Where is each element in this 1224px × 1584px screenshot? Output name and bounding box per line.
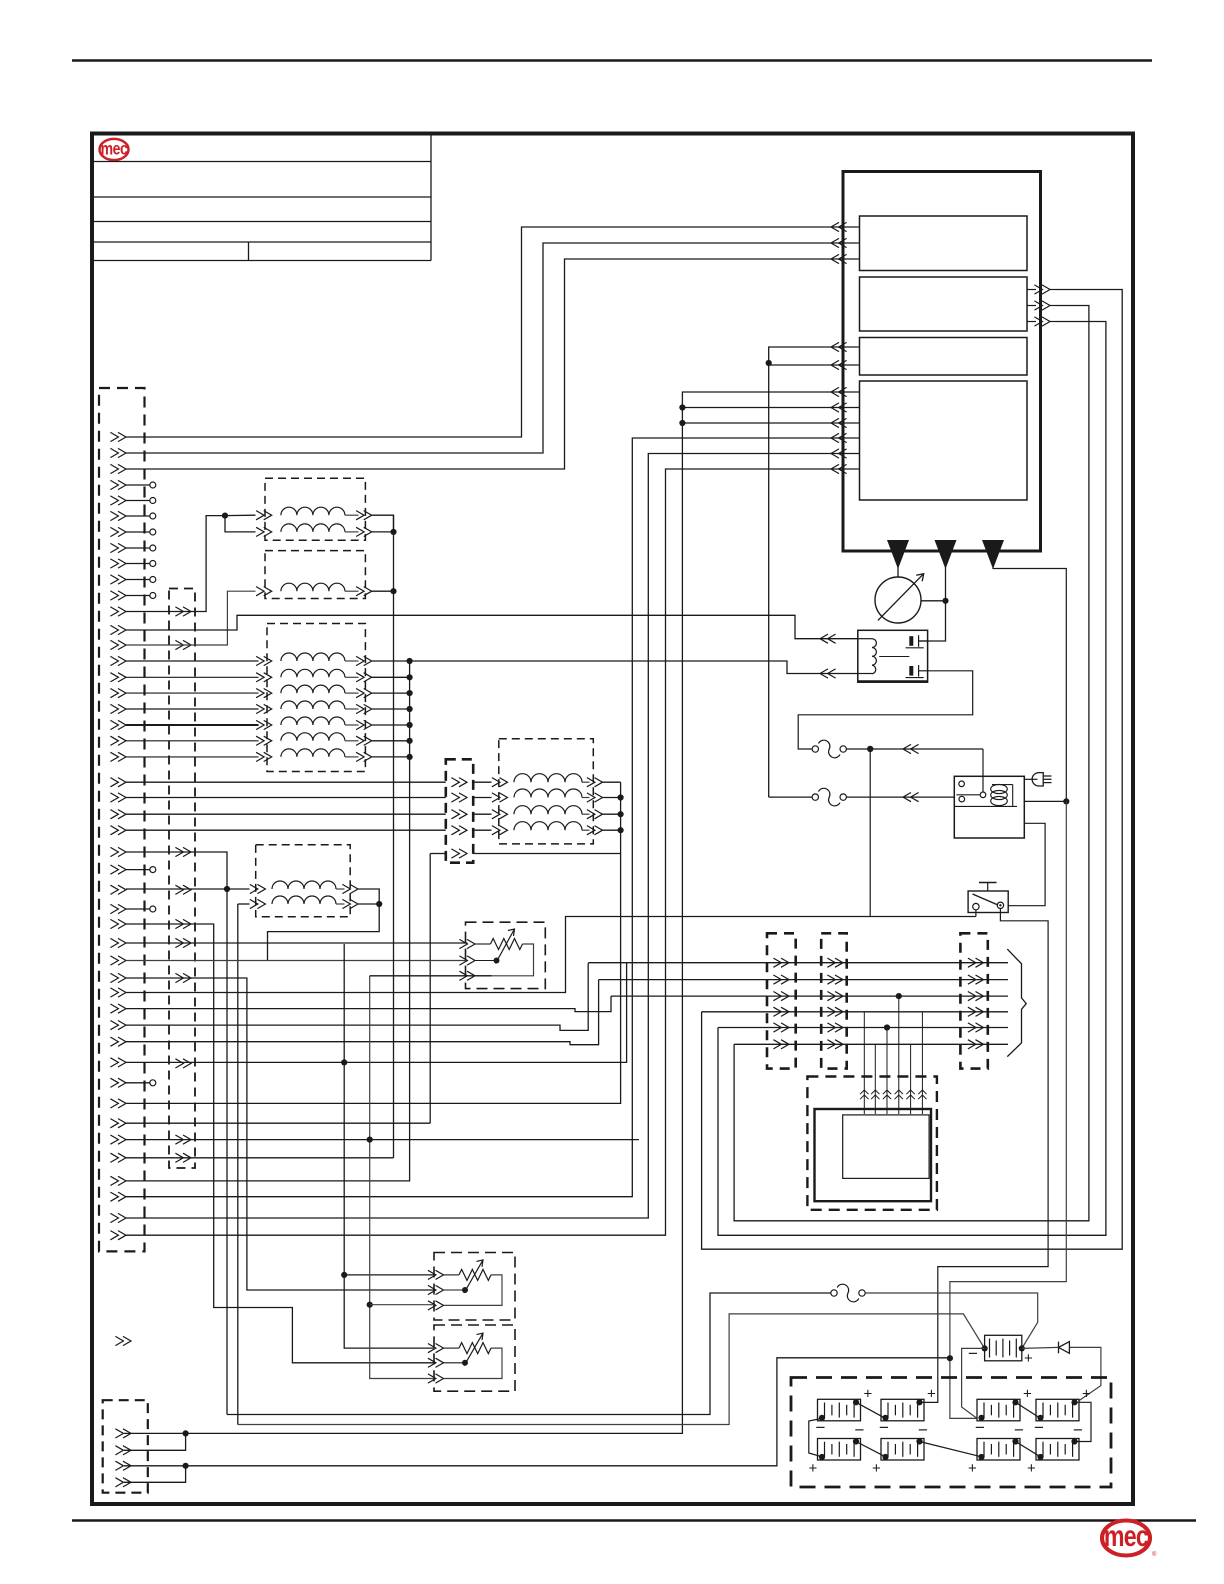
wire V2 return	[372, 588, 397, 594]
mec logo (bottom right)	[1102, 1519, 1157, 1558]
wire relay feed b	[410, 661, 858, 678]
wire gauge to relay	[919, 566, 949, 641]
wire V5 feed	[224, 886, 250, 1425]
mec logo (title block)	[100, 139, 129, 160]
wire bus V12 return	[393, 515, 395, 591]
wire F2 in	[769, 796, 812, 798]
wire pot chain 3	[367, 976, 492, 1379]
wire J1 1008	[126, 996, 611, 1012]
wire J5-2 common	[124, 1463, 189, 1483]
horn H1	[968, 1335, 1033, 1367]
U1 power terminals	[887, 540, 1004, 569]
svg-text:−: −	[816, 1418, 826, 1437]
wire F2 out	[847, 793, 955, 802]
U1 module 3	[860, 338, 1028, 376]
valve coils V1	[256, 507, 372, 536]
wires J1 to V3	[126, 661, 259, 757]
wire bus V3 return	[126, 661, 410, 1181]
wire charger to switch	[1008, 823, 1045, 905]
wires to display	[860, 993, 927, 1114]
battery links	[809, 1402, 1091, 1457]
wire relay out	[798, 671, 973, 749]
wire V4 returns	[603, 782, 624, 833]
wire V1 feed	[222, 513, 256, 532]
svg-text:mec: mec	[101, 139, 128, 159]
svg-text:+: +	[1023, 1385, 1032, 1402]
connector P2 strip	[821, 933, 847, 1068]
J5 pins	[115, 1429, 131, 1487]
drawing frame	[92, 134, 1133, 1505]
wire V5 feed2	[126, 888, 227, 890]
wire U1-1c	[126, 259, 843, 469]
connector J2	[169, 589, 195, 1169]
wire V3 returns	[372, 658, 413, 760]
P1/P2/P3 pins	[773, 958, 983, 1049]
battery charger	[954, 776, 1024, 838]
J2 pins	[175, 607, 191, 1163]
wire J1 943 pot	[126, 942, 468, 944]
connector J3 (valve harness)	[446, 759, 473, 862]
wire J1 961 pot	[126, 960, 468, 962]
wire J1 1139	[126, 1139, 639, 1141]
potentiometer R1	[459, 922, 545, 988]
connector J1	[99, 388, 145, 1251]
svg-text:−: −	[879, 1418, 889, 1437]
strip row wires	[588, 963, 1008, 1045]
spare pin	[115, 1336, 131, 1345]
wire U1-4f	[126, 469, 843, 1235]
wire U1 out2	[734, 306, 1089, 1221]
U1 output pins	[1027, 285, 1056, 326]
wire U1 to gauge	[897, 566, 899, 577]
svg-text:+: +	[809, 1460, 818, 1477]
wire J1 1157	[126, 591, 394, 1158]
wire J1 1123	[126, 1122, 430, 1124]
potentiometer R3	[428, 1325, 515, 1391]
display module bezel	[807, 1077, 937, 1210]
svg-text:+: +	[864, 1385, 873, 1402]
wire switch right	[922, 909, 1048, 1403]
wire V5 return	[268, 889, 383, 961]
wire U1 out1	[702, 290, 1123, 1250]
svg-text:mec: mec	[1104, 1519, 1149, 1552]
wire U1-4d	[126, 438, 843, 1197]
fuse F2	[812, 788, 846, 806]
wire F3 out	[865, 1293, 1037, 1348]
valve box V2	[265, 551, 365, 599]
wire J1 992	[126, 917, 976, 993]
wire J1 1062	[126, 963, 627, 1062]
wire horn feed	[238, 1314, 985, 1425]
bottom rule	[72, 1519, 1196, 1522]
diode D1	[1059, 1342, 1070, 1354]
wire J3 pin5 drop	[429, 854, 431, 1124]
svg-text:−: −	[855, 1421, 865, 1440]
wire V1 feed run	[126, 516, 225, 612]
wire U1-3 feed	[766, 347, 843, 797]
charger AC plug	[1024, 773, 1051, 786]
svg-text:−: −	[1014, 1421, 1024, 1440]
svg-text:−: −	[975, 1418, 985, 1437]
wire J1 1041	[126, 980, 599, 1045]
J3 pins	[451, 778, 467, 859]
wire U1-4e	[126, 454, 843, 1219]
battery bank box	[791, 1378, 1111, 1488]
svg-text:+: +	[927, 1385, 936, 1402]
wire J1 978	[126, 978, 434, 1290]
wire V5 feed run	[126, 852, 227, 889]
valve box V5	[256, 845, 351, 917]
U1 module 1	[860, 216, 1028, 271]
svg-text:®: ®	[1152, 1551, 1157, 1558]
J1 pins	[110, 432, 126, 1239]
wire horn to diode	[1022, 1347, 1059, 1348]
svg-text:−: −	[918, 1421, 928, 1440]
wire J3 pin5	[430, 853, 620, 855]
wire J3 to V4	[473, 782, 491, 830]
connector J5	[103, 1400, 148, 1493]
wire V2 feed run	[126, 591, 256, 645]
svg-text:−: −	[1073, 1421, 1083, 1440]
wire U1-4 common	[124, 392, 843, 1433]
fuse F3	[831, 1284, 865, 1302]
wire U1-1a	[126, 227, 843, 437]
connector P3 strip	[960, 933, 987, 1068]
svg-text:+: +	[1082, 1385, 1091, 1402]
wires J1 to J3	[126, 782, 446, 830]
tilt switch S1	[968, 883, 1008, 913]
wire J1 924	[126, 924, 434, 1363]
wire F3 in	[227, 1293, 831, 1415]
batteries row 1	[816, 1385, 1092, 1437]
top rule	[72, 59, 1152, 62]
wire diode to bank	[1069, 1347, 1101, 1401]
potentiometer R2	[428, 1253, 515, 1321]
wire F1 out	[847, 744, 984, 791]
hour meter relay K1	[858, 630, 928, 682]
valve box V3	[267, 624, 365, 772]
wire switch left	[867, 746, 976, 917]
U1 module 2	[860, 277, 1028, 331]
svg-text:−: −	[1034, 1418, 1044, 1437]
valve box V1	[265, 478, 365, 540]
J1 terminal rings	[126, 482, 156, 1086]
display module screen	[843, 1115, 929, 1179]
batteries row 2	[809, 1421, 1084, 1478]
wire T3 run	[947, 566, 1067, 1418]
display module body	[815, 1109, 932, 1201]
valve coil V2	[256, 583, 372, 596]
title block	[92, 134, 431, 261]
U1 input pins	[831, 222, 860, 473]
valve coils V5	[250, 881, 358, 909]
U1 module 4	[860, 381, 1028, 500]
wire J1 1103	[126, 782, 621, 1103]
controller box U1	[843, 172, 1041, 552]
svg-text:+: +	[872, 1460, 881, 1477]
valve coils V4	[492, 774, 603, 835]
svg-text:−: −	[968, 1344, 978, 1363]
wire U1 out3	[718, 322, 1106, 1236]
wire pot chain 1	[341, 944, 434, 1348]
wire U1-1b	[126, 243, 843, 453]
cable brace	[1007, 949, 1026, 1057]
svg-text:+: +	[968, 1460, 977, 1477]
wire relay feed a	[126, 615, 858, 643]
wire J5-1 common	[124, 1430, 189, 1450]
wire J5 to bank	[124, 1358, 950, 1466]
svg-text:+: +	[1027, 1460, 1036, 1477]
connector P1 strip	[767, 933, 796, 1068]
battery gauge M1	[875, 574, 924, 623]
wire charger to bank	[1024, 798, 1069, 804]
valve box V4	[499, 739, 594, 844]
fuse F1	[812, 740, 846, 758]
valve coils V3	[256, 653, 372, 762]
wire horn minus	[962, 1348, 985, 1418]
svg-text:+: +	[1024, 1350, 1033, 1367]
wire J1 1025	[126, 963, 588, 1030]
wire V1 return	[372, 515, 397, 535]
